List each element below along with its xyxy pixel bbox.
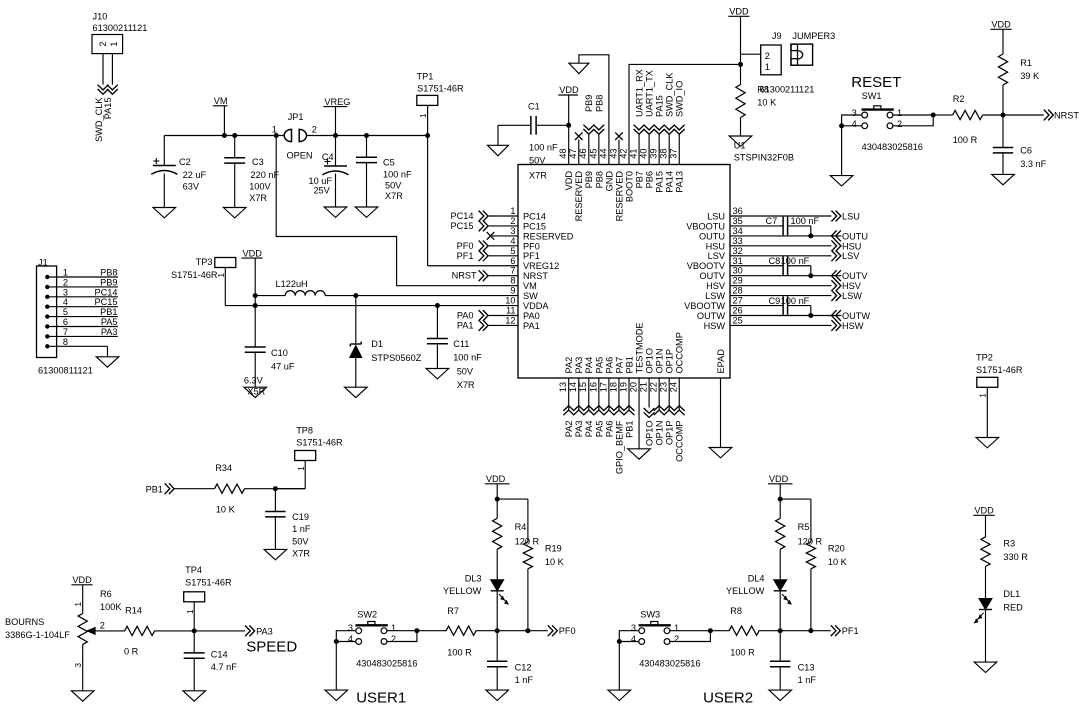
- svg-text:25V: 25V: [313, 186, 330, 196]
- svg-text:15: 15: [578, 382, 588, 392]
- svg-text:S1751-46R: S1751-46R: [171, 270, 218, 280]
- svg-text:2: 2: [510, 216, 515, 226]
- svg-text:PA15: PA15: [103, 98, 113, 120]
- svg-text:3386G-1-104LF: 3386G-1-104LF: [5, 630, 70, 640]
- svg-text:VBOOTU: VBOOTU: [686, 221, 725, 231]
- svg-text:1: 1: [419, 113, 428, 118]
- svg-text:X7R: X7R: [249, 193, 267, 203]
- svg-text:PA15: PA15: [655, 95, 665, 117]
- svg-text:PA1: PA1: [457, 320, 474, 330]
- svg-text:OUTW: OUTW: [697, 311, 725, 321]
- svg-text:SW: SW: [523, 291, 538, 301]
- svg-text:HSW: HSW: [704, 321, 726, 331]
- svg-text:PB1: PB1: [624, 356, 634, 373]
- svg-text:R5: R5: [798, 522, 810, 532]
- svg-text:50V: 50V: [385, 181, 402, 191]
- svg-text:TP2: TP2: [976, 353, 993, 363]
- svg-text:1: 1: [765, 62, 770, 72]
- svg-text:HSW: HSW: [842, 321, 864, 331]
- svg-text:36: 36: [733, 206, 743, 216]
- svg-text:100 R: 100 R: [953, 135, 978, 145]
- svg-text:32: 32: [733, 246, 743, 256]
- svg-text:C19: C19: [292, 512, 309, 522]
- svg-text:5: 5: [510, 246, 515, 256]
- svg-text:USER2: USER2: [703, 690, 753, 707]
- svg-text:1: 1: [63, 268, 68, 278]
- svg-text:HSV: HSV: [706, 281, 726, 291]
- svg-text:R8: R8: [730, 606, 742, 616]
- svg-text:22: 22: [649, 382, 659, 392]
- svg-text:31: 31: [733, 256, 743, 266]
- svg-text:10: 10: [505, 296, 515, 306]
- svg-text:PA7: PA7: [614, 357, 624, 374]
- svg-text:R6: R6: [100, 589, 112, 599]
- svg-text:PB9: PB9: [584, 95, 594, 112]
- svg-text:R7: R7: [447, 606, 459, 616]
- svg-text:27: 27: [733, 296, 743, 306]
- svg-text:1 nF: 1 nF: [515, 675, 534, 685]
- svg-text:22 uF: 22 uF: [183, 170, 207, 180]
- svg-text:PB1: PB1: [624, 421, 634, 438]
- svg-text:PA3: PA3: [101, 327, 118, 337]
- svg-text:J10: J10: [93, 12, 108, 22]
- svg-text:STPS0560Z: STPS0560Z: [371, 353, 421, 363]
- svg-text:47: 47: [568, 148, 578, 158]
- svg-text:20: 20: [628, 382, 638, 392]
- svg-text:NRST: NRST: [1054, 111, 1079, 121]
- svg-text:2: 2: [897, 119, 902, 129]
- svg-text:430483025816: 430483025816: [862, 142, 923, 152]
- svg-text:YELLOW: YELLOW: [443, 586, 482, 596]
- svg-text:C10: C10: [271, 348, 288, 358]
- svg-text:PC14: PC14: [451, 211, 474, 221]
- svg-text:LSW: LSW: [705, 291, 725, 301]
- svg-text:R34: R34: [215, 463, 232, 473]
- svg-text:C14: C14: [211, 650, 228, 660]
- svg-text:10 K: 10 K: [828, 557, 848, 567]
- svg-text:1: 1: [74, 602, 83, 607]
- svg-text:10 K: 10 K: [545, 557, 565, 567]
- svg-text:1 nF: 1 nF: [292, 524, 311, 534]
- svg-text:1: 1: [109, 41, 119, 46]
- svg-text:PB7: PB7: [634, 171, 644, 188]
- svg-text:SW2: SW2: [357, 610, 377, 620]
- svg-text:VDD: VDD: [974, 506, 994, 516]
- svg-text:PA3: PA3: [256, 626, 273, 636]
- svg-text:PC15: PC15: [95, 297, 118, 307]
- svg-text:SW3: SW3: [640, 610, 660, 620]
- svg-text:LSU: LSU: [842, 211, 860, 221]
- svg-text:HSU: HSU: [842, 241, 861, 251]
- svg-text:4: 4: [510, 236, 515, 246]
- svg-text:C12: C12: [515, 663, 532, 673]
- svg-text:100 R: 100 R: [730, 647, 755, 657]
- svg-text:16: 16: [588, 382, 598, 392]
- svg-text:2: 2: [312, 124, 317, 134]
- svg-text:7: 7: [63, 327, 68, 337]
- svg-text:LSV: LSV: [842, 251, 860, 261]
- svg-text:PA3: PA3: [574, 357, 584, 374]
- svg-text:VDDA: VDDA: [523, 301, 549, 311]
- svg-text:10 K: 10 K: [757, 98, 777, 108]
- svg-text:R19: R19: [545, 544, 562, 554]
- svg-text:1: 1: [217, 273, 226, 278]
- svg-text:OUTV: OUTV: [699, 271, 725, 281]
- svg-text:11: 11: [506, 306, 516, 316]
- svg-text:DL1: DL1: [1003, 589, 1020, 599]
- svg-text:6: 6: [63, 317, 68, 327]
- svg-text:RESERVED: RESERVED: [614, 171, 624, 222]
- svg-text:VDD: VDD: [72, 575, 92, 585]
- svg-text:PB8: PB8: [594, 95, 604, 112]
- svg-text:S1751-46R: S1751-46R: [417, 84, 464, 94]
- svg-text:39 K: 39 K: [1020, 71, 1040, 81]
- svg-text:47 uF: 47 uF: [271, 362, 295, 372]
- svg-text:PA6: PA6: [604, 357, 614, 374]
- svg-text:PA0: PA0: [523, 311, 540, 321]
- svg-text:12: 12: [505, 315, 515, 325]
- svg-text:PA13: PA13: [675, 171, 685, 193]
- svg-text:VM: VM: [523, 281, 537, 291]
- svg-text:9: 9: [510, 286, 515, 296]
- svg-text:UART1_RX: UART1_RX: [634, 69, 644, 117]
- svg-text:PF1: PF1: [457, 251, 474, 261]
- svg-text:61300211121: 61300211121: [93, 23, 148, 33]
- svg-text:3: 3: [348, 623, 353, 633]
- svg-text:13: 13: [558, 382, 568, 392]
- svg-text:430483025816: 430483025816: [639, 659, 700, 669]
- svg-text:SPEED: SPEED: [246, 639, 297, 656]
- svg-text:C9: C9: [769, 296, 781, 306]
- svg-text:1: 1: [897, 108, 902, 118]
- svg-text:LSV: LSV: [708, 251, 726, 261]
- svg-text:PA2: PA2: [564, 421, 574, 438]
- svg-text:VBOOTW: VBOOTW: [684, 301, 725, 311]
- svg-text:STSPIN32F0B: STSPIN32F0B: [734, 153, 794, 163]
- svg-text:48: 48: [558, 148, 568, 158]
- svg-text:2: 2: [674, 634, 679, 644]
- svg-text:8: 8: [510, 276, 515, 286]
- svg-text:L122uH: L122uH: [276, 279, 308, 289]
- svg-text:100 R: 100 R: [447, 647, 472, 657]
- svg-text:1: 1: [510, 206, 515, 216]
- svg-text:X7R: X7R: [385, 191, 403, 201]
- svg-text:PA14: PA14: [665, 171, 675, 193]
- svg-text:4: 4: [348, 634, 353, 644]
- svg-text:1: 1: [272, 124, 277, 134]
- svg-text:C4: C4: [322, 152, 334, 162]
- svg-text:NRST: NRST: [452, 271, 477, 281]
- svg-text:OP1N: OP1N: [655, 348, 665, 373]
- svg-text:GPIO_BEMF: GPIO_BEMF: [614, 420, 624, 474]
- svg-text:2: 2: [391, 634, 396, 644]
- svg-text:J9: J9: [772, 31, 782, 41]
- svg-text:X7R: X7R: [529, 171, 547, 181]
- svg-text:PA1: PA1: [523, 321, 540, 331]
- svg-text:430483025816: 430483025816: [356, 659, 417, 669]
- svg-text:PC15: PC15: [523, 221, 546, 231]
- svg-text:PC14: PC14: [523, 211, 546, 221]
- svg-text:21: 21: [639, 382, 649, 392]
- svg-text:2: 2: [98, 41, 108, 46]
- svg-text:100 nF: 100 nF: [781, 256, 810, 266]
- svg-text:24: 24: [669, 382, 679, 392]
- svg-text:X7R: X7R: [457, 380, 475, 390]
- svg-text:C6: C6: [1020, 146, 1032, 156]
- svg-text:VDD: VDD: [564, 171, 574, 191]
- svg-text:DL3: DL3: [465, 573, 482, 583]
- svg-text:TP8: TP8: [296, 426, 313, 436]
- svg-text:PB9: PB9: [584, 171, 594, 188]
- svg-text:19: 19: [618, 382, 628, 392]
- svg-text:61300211121: 61300211121: [760, 85, 815, 95]
- svg-text:43: 43: [608, 148, 618, 158]
- svg-text:38: 38: [659, 148, 669, 158]
- svg-text:PB6: PB6: [645, 171, 655, 188]
- svg-text:PB8: PB8: [100, 268, 117, 278]
- svg-text:100V: 100V: [249, 182, 271, 192]
- svg-text:3.3 nF: 3.3 nF: [1020, 159, 1046, 169]
- svg-text:37: 37: [669, 148, 679, 158]
- svg-text:10 K: 10 K: [216, 505, 236, 515]
- svg-text:40: 40: [639, 148, 649, 158]
- svg-text:PA5: PA5: [594, 421, 604, 438]
- svg-text:30: 30: [733, 266, 743, 276]
- svg-text:PA4: PA4: [584, 421, 594, 438]
- svg-text:TP3: TP3: [196, 257, 213, 267]
- svg-text:OUTU: OUTU: [842, 231, 868, 241]
- svg-text:C5: C5: [383, 158, 395, 168]
- svg-text:R3: R3: [1003, 539, 1015, 549]
- svg-text:C13: C13: [798, 663, 815, 673]
- svg-text:10 uF: 10 uF: [309, 176, 333, 186]
- svg-text:R20: R20: [828, 544, 845, 554]
- svg-text:PA2: PA2: [564, 357, 574, 374]
- svg-text:33: 33: [733, 236, 743, 246]
- svg-text:GND: GND: [604, 171, 614, 192]
- svg-text:S1751-46R: S1751-46R: [296, 438, 343, 448]
- svg-text:4.7 nF: 4.7 nF: [211, 662, 237, 672]
- svg-text:X5R: X5R: [247, 387, 265, 397]
- svg-text:23: 23: [659, 382, 669, 392]
- svg-text:120 R: 120 R: [515, 536, 540, 546]
- svg-text:OUTW: OUTW: [842, 311, 870, 321]
- svg-text:29: 29: [733, 276, 743, 286]
- svg-text:6.3V: 6.3V: [244, 376, 264, 386]
- svg-text:JP1: JP1: [288, 112, 304, 122]
- svg-text:OP1O: OP1O: [645, 421, 655, 447]
- svg-text:VDD: VDD: [486, 474, 506, 484]
- svg-text:3: 3: [852, 108, 857, 118]
- svg-text:EPAD: EPAD: [716, 349, 726, 374]
- svg-text:0 R: 0 R: [124, 647, 139, 657]
- svg-text:100 nF: 100 nF: [383, 170, 412, 180]
- svg-text:4: 4: [852, 119, 857, 129]
- svg-text:100K: 100K: [100, 602, 122, 612]
- svg-text:C8: C8: [769, 256, 781, 266]
- svg-text:330 R: 330 R: [1003, 552, 1028, 562]
- svg-text:PB1: PB1: [100, 307, 117, 317]
- svg-text:46: 46: [578, 148, 588, 158]
- svg-text:UART1_TX: UART1_TX: [645, 70, 655, 117]
- svg-text:OUTV: OUTV: [842, 271, 868, 281]
- svg-text:C11: C11: [453, 339, 469, 349]
- svg-text:2: 2: [63, 277, 68, 287]
- svg-text:RESET: RESET: [851, 74, 901, 91]
- svg-text:OUTU: OUTU: [699, 231, 725, 241]
- svg-text:8: 8: [63, 337, 68, 347]
- svg-text:C3: C3: [252, 157, 264, 167]
- svg-text:R2: R2: [953, 94, 965, 104]
- svg-text:C1: C1: [528, 101, 540, 111]
- svg-text:VREG12: VREG12: [523, 261, 559, 271]
- svg-text:3: 3: [631, 623, 636, 633]
- svg-text:PF0: PF0: [457, 241, 474, 251]
- svg-text:TP1: TP1: [417, 72, 434, 82]
- svg-text:25: 25: [733, 315, 743, 325]
- svg-text:100 nF: 100 nF: [781, 296, 810, 306]
- svg-text:100 nF: 100 nF: [453, 353, 482, 363]
- svg-text:50V: 50V: [292, 536, 309, 546]
- svg-text:4: 4: [631, 634, 636, 644]
- svg-text:PF1: PF1: [842, 626, 859, 636]
- svg-text:VDD: VDD: [243, 248, 263, 258]
- svg-text:TESTMODE: TESTMODE: [634, 322, 644, 373]
- svg-text:120 R: 120 R: [798, 536, 823, 546]
- svg-text:SWD_IO: SWD_IO: [675, 81, 685, 117]
- svg-text:OP1N: OP1N: [655, 421, 665, 446]
- svg-text:SWD_CLK: SWD_CLK: [665, 72, 675, 117]
- svg-text:41: 41: [628, 148, 638, 158]
- svg-text:4: 4: [63, 297, 68, 307]
- svg-text:26: 26: [733, 306, 743, 316]
- svg-text:PA5: PA5: [101, 317, 118, 327]
- svg-text:PA3: PA3: [574, 421, 584, 438]
- svg-text:14: 14: [568, 382, 578, 392]
- svg-text:50V: 50V: [457, 366, 474, 376]
- svg-text:1: 1: [186, 609, 195, 614]
- svg-text:X7R: X7R: [292, 549, 310, 559]
- svg-text:1: 1: [297, 466, 306, 471]
- svg-text:18: 18: [608, 382, 618, 392]
- svg-text:USER1: USER1: [356, 690, 406, 707]
- svg-text:VBOOTV: VBOOTV: [687, 261, 726, 271]
- svg-text:5: 5: [63, 307, 68, 317]
- svg-text:63V: 63V: [183, 182, 200, 192]
- svg-text:45: 45: [588, 148, 598, 158]
- svg-text:U1: U1: [734, 141, 746, 151]
- svg-text:C2: C2: [179, 157, 191, 167]
- svg-text:HSU: HSU: [706, 241, 725, 251]
- svg-text:HSV: HSV: [842, 281, 862, 291]
- svg-text:R4: R4: [515, 522, 527, 532]
- svg-text:BOOT0: BOOT0: [624, 171, 634, 202]
- svg-text:C7: C7: [766, 216, 778, 226]
- svg-text:OPEN: OPEN: [287, 150, 313, 160]
- svg-text:3: 3: [510, 226, 515, 236]
- svg-text:DL4: DL4: [748, 573, 765, 583]
- svg-text:PA5: PA5: [594, 357, 604, 374]
- svg-text:RESERVED: RESERVED: [523, 231, 574, 241]
- svg-text:YELLOW: YELLOW: [726, 586, 765, 596]
- svg-text:3: 3: [63, 287, 68, 297]
- svg-text:PF1: PF1: [523, 251, 540, 261]
- svg-text:OCCOMP: OCCOMP: [675, 421, 685, 462]
- svg-text:PA0: PA0: [457, 311, 474, 321]
- svg-text:OP1O: OP1O: [645, 348, 655, 374]
- svg-text:OCCOMP: OCCOMP: [675, 332, 685, 373]
- svg-text:SW1: SW1: [862, 91, 882, 101]
- svg-text:S1751-46R: S1751-46R: [185, 577, 232, 587]
- svg-text:PC14: PC14: [95, 287, 118, 297]
- svg-text:VDD: VDD: [991, 20, 1011, 30]
- svg-text:VDD: VDD: [559, 85, 579, 95]
- svg-text:RED: RED: [1003, 603, 1023, 613]
- svg-text:RESERVED: RESERVED: [574, 171, 584, 222]
- svg-text:VDD: VDD: [769, 474, 789, 484]
- svg-text:100 nF: 100 nF: [791, 216, 820, 226]
- svg-text:34: 34: [733, 226, 743, 236]
- svg-text:6: 6: [510, 256, 515, 266]
- svg-text:61300811121: 61300811121: [38, 366, 93, 376]
- svg-text:100 nF: 100 nF: [529, 142, 558, 152]
- svg-text:17: 17: [598, 382, 608, 392]
- svg-text:1: 1: [979, 393, 988, 398]
- svg-text:OP1P: OP1P: [665, 421, 675, 446]
- svg-text:2: 2: [100, 621, 105, 631]
- svg-text:1: 1: [391, 623, 396, 633]
- svg-text:PC15: PC15: [451, 221, 474, 231]
- svg-text:PA6: PA6: [604, 421, 614, 438]
- svg-text:39: 39: [649, 148, 659, 158]
- svg-text:PA15: PA15: [655, 171, 665, 193]
- svg-text:NRST: NRST: [523, 271, 548, 281]
- svg-text:7: 7: [510, 266, 515, 276]
- svg-text:S1751-46R: S1751-46R: [976, 365, 1023, 375]
- svg-text:42: 42: [618, 148, 628, 158]
- svg-text:BOURNS: BOURNS: [5, 617, 44, 627]
- svg-text:35: 35: [733, 216, 743, 226]
- svg-text:R1: R1: [1020, 58, 1032, 68]
- svg-text:VM: VM: [214, 96, 228, 106]
- svg-text:1: 1: [674, 623, 679, 633]
- svg-text:3: 3: [74, 663, 83, 668]
- svg-text:28: 28: [733, 286, 743, 296]
- svg-text:TP4: TP4: [185, 565, 202, 575]
- svg-text:220 nF: 220 nF: [251, 170, 280, 180]
- svg-text:PB1: PB1: [146, 484, 163, 494]
- svg-text:PB9: PB9: [100, 277, 117, 287]
- svg-text:LSU: LSU: [707, 211, 725, 221]
- svg-text:PA4: PA4: [584, 357, 594, 374]
- svg-text:2: 2: [765, 51, 770, 61]
- svg-text:D1: D1: [371, 339, 383, 349]
- svg-text:JUMPER3: JUMPER3: [792, 31, 835, 41]
- svg-text:OP1P: OP1P: [665, 349, 675, 374]
- svg-text:1 nF: 1 nF: [798, 675, 817, 685]
- svg-text:R14: R14: [125, 606, 142, 616]
- svg-text:PF0: PF0: [523, 241, 540, 251]
- svg-text:44: 44: [598, 148, 608, 158]
- svg-text:VREG: VREG: [324, 97, 350, 107]
- svg-text:PF0: PF0: [559, 626, 576, 636]
- svg-text:LSW: LSW: [842, 291, 862, 301]
- svg-text:VDD: VDD: [729, 7, 749, 17]
- svg-text:PB8: PB8: [594, 171, 604, 188]
